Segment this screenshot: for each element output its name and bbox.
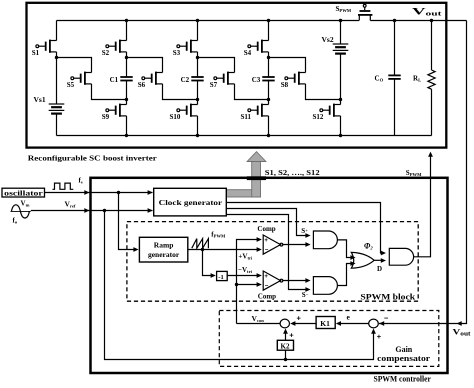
wire RL top vertical: [431, 21, 433, 71]
svg-text:Clock generator: Clock generator: [159, 198, 223, 207]
wire Phi2 line from clock generator to AND3 upper input: [227, 203, 383, 254]
svg-text:Gain: Gain: [395, 345, 412, 354]
wire e from right summer to K1: [339, 323, 369, 325]
svg-text:Vs1: Vs1: [34, 95, 46, 104]
wire K2 output to left summer: [285, 332, 287, 341]
node dot K2 tap: [284, 358, 287, 361]
wire C2 top vertical: [197, 58, 199, 78]
wire C3 bottom vertical to S11 drain: [268, 81, 270, 105]
node dot bottom rail col2: [125, 134, 128, 137]
node dot lower col3: [196, 98, 199, 101]
SPWM controller outer box: [91, 178, 448, 373]
wire Vout feedback from inverter output: [379, 21, 467, 324]
transistor S6: [138, 72, 163, 90]
svg-text:S8: S8: [281, 81, 289, 89]
ramp generator box: [139, 237, 187, 262]
wire Vs1 bottom lead: [56, 114, 58, 136]
svg-text:S7: S7: [210, 81, 218, 89]
svg-text:+: +: [264, 238, 268, 244]
svg-text:S12: S12: [313, 113, 324, 121]
black blob where gray arrow crosses controller top border: [247, 176, 266, 180]
gain block -1: [217, 271, 228, 280]
svg-text:S11: S11: [241, 113, 252, 121]
wire branch down to -1 block: [203, 250, 214, 276]
svg-text:S6: S6: [138, 81, 146, 89]
svg-text:S9: S9: [102, 113, 110, 121]
transistor S7: [210, 72, 235, 90]
svg-text:S4: S4: [244, 49, 252, 57]
wire OR output D to AND3 lower input: [374, 259, 382, 261]
wire S5 source down and right to lower node: [92, 84, 127, 100]
wire fs oscillator to clock generator: [45, 192, 153, 194]
wire AND2 output to OR lower input: [337, 264, 352, 286]
svg-text:D: D: [377, 265, 382, 273]
AND gate G2 (lower): [313, 277, 337, 295]
svg-text:+: +: [377, 332, 382, 341]
node dot lower col2: [125, 98, 128, 101]
wire S1 drain to top rail: [56, 21, 58, 41]
wire K2 input stub: [285, 350, 287, 359]
summing junction right: [369, 319, 379, 328]
wire S3 drain to top rail: [197, 21, 199, 41]
wire S10 source to bottom rail: [197, 116, 199, 136]
svg-text:Reconfigurable SC boost invert: Reconfigurable SC boost inverter: [28, 153, 158, 162]
wire mid node D horizontal: [269, 58, 306, 73]
wire Comp2 output to AND2 upper input: [283, 280, 307, 282]
wire S+ line from clock generator to AND1 upper input: [227, 209, 308, 236]
node dot ramp output branch: [201, 248, 204, 251]
wire Vref to clock generator: [31, 210, 153, 212]
wire AND1 output to OR upper input: [337, 240, 352, 258]
svg-text:S5: S5: [67, 81, 75, 89]
wire RL bottom vertical: [431, 89, 433, 135]
op-amp comparator Comp1: [257, 225, 282, 254]
node dot bottom rail col3: [196, 134, 199, 137]
wire Co bottom vertical: [394, 79, 396, 136]
svg-text:S1, S2, …., S12: S1, S2, …., S12: [265, 168, 320, 177]
wire SPWM output to inverter: [414, 157, 431, 257]
svg-text:C3: C3: [252, 76, 261, 84]
wire S12 source to bottom rail: [340, 116, 342, 136]
OR gate G3: [351, 252, 374, 268]
node dot bottom rail col4: [267, 134, 270, 137]
node dot lower col5: [339, 98, 342, 101]
svg-text:S2: S2: [102, 49, 110, 57]
wire Vref branch down and along bottom to right summer: [105, 211, 374, 360]
svg-text:-1: -1: [218, 274, 223, 281]
svg-text:S3: S3: [173, 49, 181, 57]
wire S4 drain to top rail: [268, 21, 270, 41]
wire S6 source down and right to lower node: [163, 84, 198, 100]
wire top rail right segment to Vout feedback corner: [370, 20, 466, 22]
node dot mid D: [267, 56, 270, 59]
wire mid node A horizontal: [57, 58, 92, 73]
svg-text:S1: S1: [32, 49, 40, 57]
transistor S9: [102, 104, 127, 122]
svg-text:C1: C1: [110, 76, 119, 84]
wire top rail left segment: [57, 20, 360, 22]
transistor S5: [67, 72, 92, 90]
wire Vs2 bottom lead to node: [340, 54, 342, 105]
svg-text:Comp: Comp: [257, 225, 275, 233]
sine wave source glyph: [11, 200, 31, 225]
wire mid node B horizontal: [127, 58, 163, 73]
wire Vcon branch to Comp2 minus input: [237, 284, 259, 286]
wire C1 top vertical: [126, 58, 128, 78]
svg-text:+: +: [264, 274, 268, 280]
AND gate G4 (output): [389, 248, 413, 265]
wire Vs1 top lead: [56, 58, 58, 105]
wire S11 source to bottom rail: [268, 116, 270, 136]
svg-text:generator: generator: [148, 250, 180, 259]
capacitor C3: [252, 76, 275, 84]
svg-text:K2: K2: [281, 343, 290, 351]
wire -1 output to Comp2 plus input: [227, 275, 258, 277]
node dot Vref branch: [103, 209, 106, 212]
wire C3 top vertical: [268, 58, 270, 78]
transistor S10: [170, 104, 198, 122]
wire Vs2 top lead: [340, 21, 342, 45]
wire C2 bottom vertical to S10 drain: [197, 81, 199, 105]
node dot mid B: [125, 56, 128, 59]
svg-text:+: +: [289, 330, 294, 339]
svg-text:oscillator: oscillator: [4, 189, 43, 197]
transistor S1: [32, 40, 57, 58]
resistor RL: [413, 70, 435, 89]
wire S2 source to mid node: [126, 52, 128, 58]
transistor S4: [244, 40, 269, 58]
wire C1 bottom vertical to S9 drain: [126, 81, 128, 105]
svg-text:Ramp: Ramp: [154, 241, 174, 250]
capacitor Co: [388, 75, 400, 79]
node dot mid A: [55, 56, 58, 59]
capacitor C1: [110, 76, 133, 84]
node dot mid C: [196, 56, 199, 59]
svg-text:+: +: [297, 314, 302, 323]
wire Comp1 output to AND1 lower input: [283, 244, 307, 246]
node dot fs branch: [117, 191, 120, 194]
svg-text:Vs2: Vs2: [322, 35, 334, 44]
svg-text:C2: C2: [181, 76, 190, 84]
svg-text:−: −: [265, 248, 269, 254]
transistor S_PWM switch: [336, 4, 373, 20]
inverter outer box: [27, 3, 447, 148]
gray bus from clock generator: [227, 152, 266, 197]
transistor S2: [102, 40, 127, 58]
wire bottom rail: [57, 135, 432, 137]
SPWM block dashed box: [127, 222, 418, 302]
node dot Vcon branch: [235, 283, 238, 286]
transistor S8: [281, 72, 306, 90]
wire Vcon from summer to riser corner: [237, 323, 281, 325]
node dot bottom rail col5: [339, 134, 342, 137]
wire S9 source to bottom rail: [126, 116, 128, 136]
svg-text:SPWM block: SPWM block: [360, 293, 415, 302]
svg-text:compensator: compensator: [377, 354, 431, 363]
wire Vcon riser to comparator plus inputs: [237, 240, 259, 324]
wire S- line from clock generator to AND2 lower input: [227, 215, 308, 290]
battery Vs1: [34, 95, 65, 114]
svg-text:K1: K1: [320, 319, 330, 328]
svg-text:−: −: [384, 314, 389, 323]
node dot lower col4: [267, 98, 270, 101]
wire ramp output to Comp1 minus input: [188, 249, 259, 251]
transistor S11: [241, 104, 269, 122]
svg-text:Comp: Comp: [258, 292, 276, 300]
wire S3 source to mid node: [197, 52, 199, 58]
wire S2 drain to top rail: [126, 21, 128, 41]
gain block K2: [277, 340, 293, 350]
node dots on top rail: [125, 19, 128, 22]
wire S1 source to mid node: [56, 52, 58, 58]
battery Vs2: [322, 35, 349, 54]
svg-text:S10: S10: [170, 113, 181, 121]
capacitor C2: [181, 76, 204, 84]
wire Co top vertical: [394, 21, 396, 76]
wire fs branch to ramp generator: [119, 193, 137, 250]
svg-text:−: −: [265, 284, 269, 290]
transistor S12: [313, 104, 341, 122]
gain compensator dashed box: [219, 311, 438, 367]
sawtooth glyph: [192, 239, 209, 249]
wire K1 output to left summer: [293, 323, 316, 325]
transistor S3: [173, 40, 198, 58]
wire S8 source down and right to lower node: [306, 84, 341, 100]
gain block K1: [316, 317, 335, 329]
square wave glyph: [53, 183, 74, 189]
wire S4 source to mid node: [268, 52, 270, 58]
summing junction left: [280, 319, 289, 328]
AND gate G1 (upper): [313, 231, 337, 249]
wire S7 source down and right to lower node: [235, 84, 269, 100]
wire mid node C horizontal: [198, 58, 235, 73]
oscillator box: [2, 188, 45, 197]
svg-text:SPWM controller: SPWM controller: [374, 375, 432, 383]
op-amp comparator Comp2: [258, 271, 283, 300]
clock generator box: [154, 188, 227, 216]
